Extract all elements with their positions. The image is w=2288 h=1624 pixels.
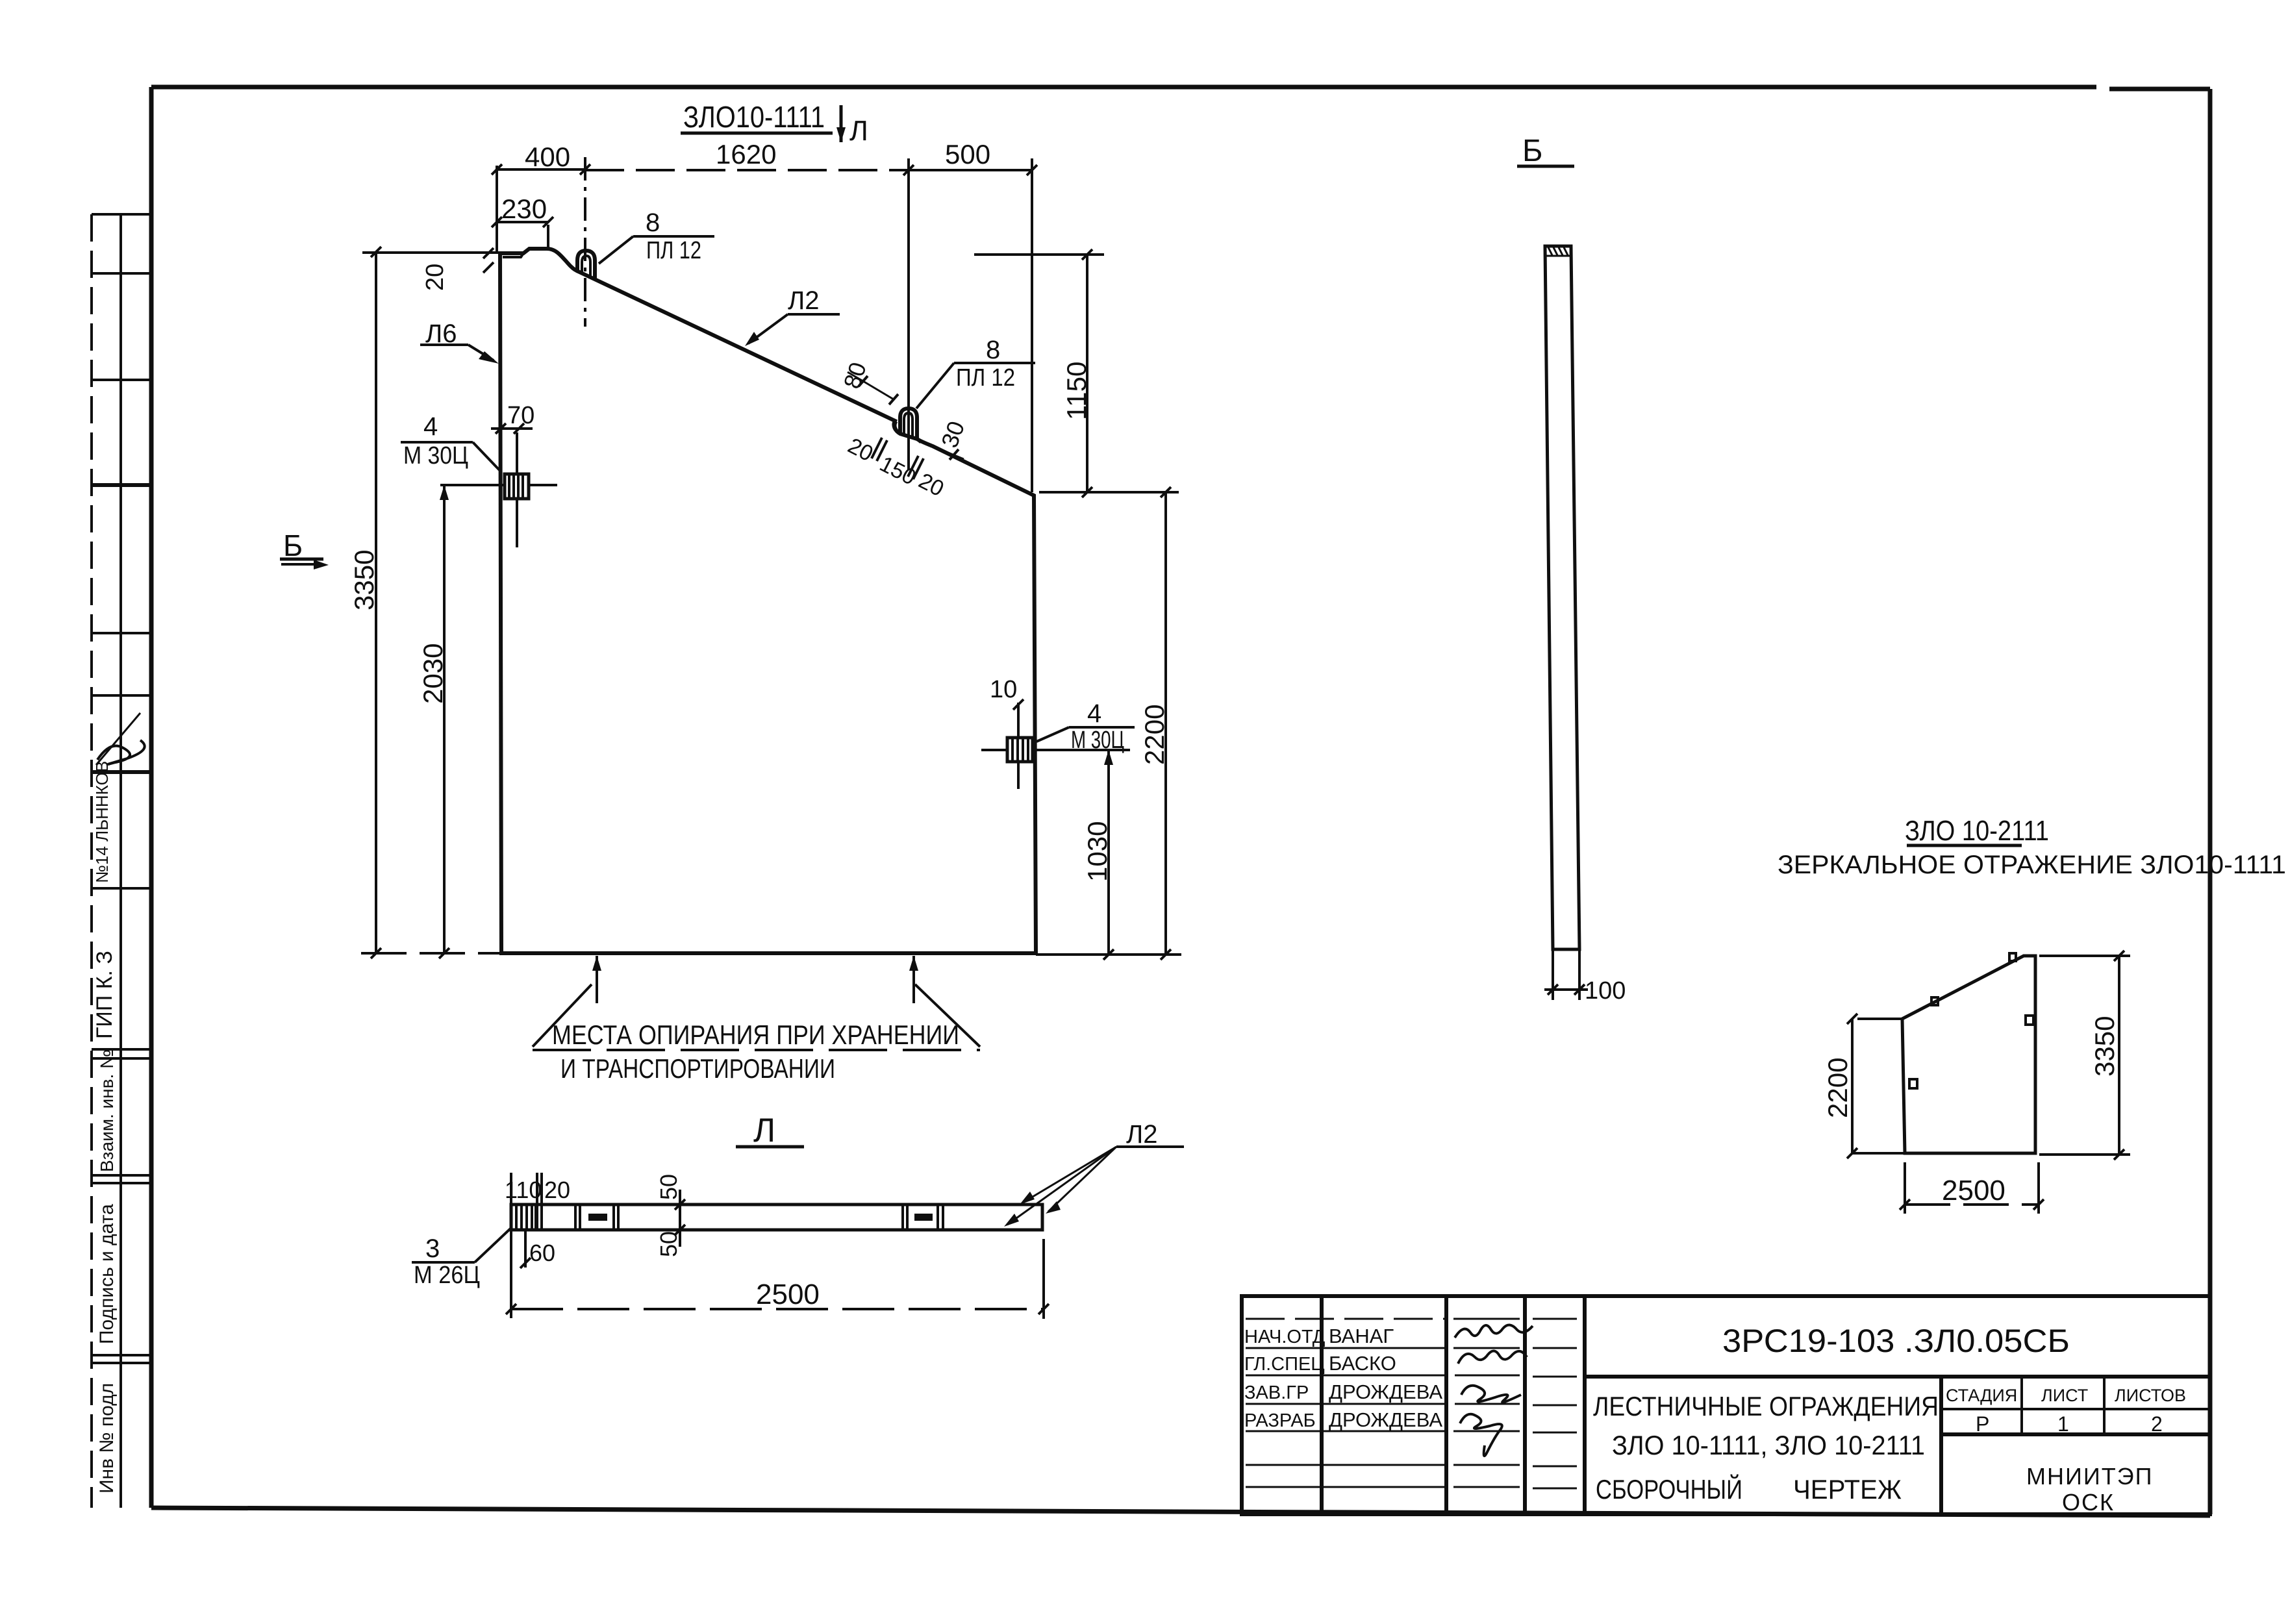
svg-text:Взаим. инв. №: Взаим. инв. №	[97, 1049, 117, 1172]
svg-text:ЗЛО10-1111: ЗЛО10-1111	[683, 100, 825, 134]
svg-text:2500: 2500	[1942, 1175, 2005, 1206]
svg-text:№14 ЛЬННКОВ: №14 ЛЬННКОВ	[92, 761, 112, 883]
svg-text:Л: Л	[849, 115, 868, 147]
svg-text:И ТРАНСПОРТИРОВАНИИ: И ТРАНСПОРТИРОВАНИИ	[560, 1053, 835, 1084]
svg-text:НАЧ.ОТД: НАЧ.ОТД	[1244, 1327, 1326, 1347]
svg-text:10: 10	[990, 676, 1017, 703]
svg-text:ЛЕСТНИЧНЫЕ ОГРАЖДЕНИЯ: ЛЕСТНИЧНЫЕ ОГРАЖДЕНИЯ	[1593, 1391, 1939, 1421]
svg-text:ОСК: ОСК	[2062, 1489, 2115, 1516]
svg-text:1030: 1030	[1082, 821, 1113, 882]
svg-text:Л2: Л2	[1126, 1120, 1158, 1149]
svg-text:400: 400	[525, 142, 570, 172]
svg-text:ДРОЖДЕВА: ДРОЖДЕВА	[1329, 1408, 1442, 1431]
svg-text:2200: 2200	[1139, 705, 1170, 765]
svg-text:1: 1	[2057, 1412, 2069, 1436]
svg-text:БАСКО: БАСКО	[1329, 1352, 1396, 1375]
svg-text:ВАНАГ: ВАНАГ	[1329, 1325, 1394, 1347]
svg-text:50: 50	[655, 1174, 682, 1200]
svg-text:СТАДИЯ: СТАДИЯ	[1946, 1386, 2017, 1405]
svg-text:3350: 3350	[349, 550, 379, 610]
svg-text:8: 8	[986, 336, 1000, 364]
svg-text:Б: Б	[283, 529, 303, 562]
svg-text:РАЗРАБ: РАЗРАБ	[1244, 1410, 1316, 1431]
svg-text:ПЛ 12: ПЛ 12	[956, 364, 1015, 392]
svg-text:50: 50	[655, 1231, 682, 1257]
svg-text:3: 3	[425, 1234, 440, 1263]
svg-text:2200: 2200	[1822, 1058, 1853, 1118]
svg-text:ЛИСТОВ: ЛИСТОВ	[2115, 1386, 2186, 1405]
svg-text:ДРОЖДЕВА: ДРОЖДЕВА	[1329, 1380, 1442, 1403]
svg-text:ЗАВ.ГР: ЗАВ.ГР	[1244, 1382, 1309, 1403]
svg-text:3РС19-103 .ЗЛ0.05СБ: 3РС19-103 .ЗЛ0.05СБ	[1722, 1323, 2070, 1359]
svg-text:4: 4	[423, 412, 438, 441]
svg-text:М 30Ц: М 30Ц	[403, 442, 468, 469]
svg-text:ПЛ 12: ПЛ 12	[646, 237, 701, 264]
svg-text:Р: Р	[1976, 1412, 1989, 1436]
svg-text:1620: 1620	[716, 139, 776, 169]
svg-text:500: 500	[945, 139, 990, 169]
svg-text:ЛИСТ: ЛИСТ	[2041, 1386, 2088, 1405]
svg-text:20: 20	[544, 1177, 570, 1203]
svg-text:3350: 3350	[2089, 1016, 2120, 1077]
svg-text:60: 60	[529, 1240, 555, 1266]
svg-text:20: 20	[421, 264, 449, 291]
svg-text:ЗЕРКАЛЬНОЕ ОТРАЖЕНИЕ ЗЛО10-1: ЗЕРКАЛЬНОЕ ОТРАЖЕНИЕ ЗЛО10-1111	[1778, 851, 2286, 879]
svg-text:МНИИТЭП: МНИИТЭП	[2026, 1463, 2153, 1490]
svg-text:ГИП К. З: ГИП К. З	[92, 951, 117, 1039]
svg-text:2: 2	[2151, 1412, 2163, 1436]
svg-text:М 26Ц: М 26Ц	[414, 1262, 480, 1289]
svg-text:1150: 1150	[1061, 362, 1092, 420]
svg-text:8: 8	[646, 208, 660, 237]
svg-text:МЕСТА ОПИРАНИЯ ПРИ ХРАНЕНИИ: МЕСТА ОПИРАНИЯ ПРИ ХРАНЕНИИ	[552, 1019, 959, 1050]
svg-text:110: 110	[505, 1177, 542, 1203]
svg-text:Л2: Л2	[788, 286, 820, 315]
svg-text:ЧЕРТЕЖ: ЧЕРТЕЖ	[1793, 1474, 1902, 1505]
svg-text:Л: Л	[753, 1112, 775, 1149]
svg-text:2030: 2030	[418, 643, 448, 704]
svg-text:100: 100	[1585, 977, 1626, 1005]
svg-text:ГЛ.СПЕЦ: ГЛ.СПЕЦ	[1244, 1354, 1325, 1375]
svg-text:ЗЛО 10-2111: ЗЛО 10-2111	[1905, 815, 2049, 847]
svg-text:2500: 2500	[756, 1279, 820, 1310]
svg-text:СБОРОЧНЫЙ: СБОРОЧНЫЙ	[1596, 1473, 1742, 1505]
svg-text:4: 4	[1087, 699, 1101, 728]
svg-text:Инв № подл: Инв № подл	[96, 1383, 118, 1493]
svg-text:Подпись и дата: Подпись и дата	[96, 1204, 118, 1344]
svg-text:ЗЛО 10-1111, ЗЛО 10-2111: ЗЛО 10-1111, ЗЛО 10-2111	[1612, 1430, 1925, 1460]
svg-text:230: 230	[501, 194, 547, 224]
svg-text:Б: Б	[1522, 134, 1543, 168]
